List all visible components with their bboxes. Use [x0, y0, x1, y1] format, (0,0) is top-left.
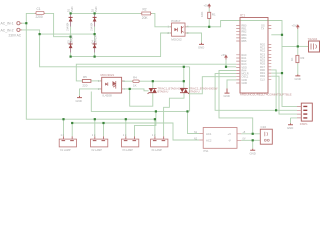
- wire: opto collector to pullup node and up-over to IC RB0: [185, 21, 282, 35]
- svg-text:GND: GND: [287, 126, 293, 130]
- junction T1 top: [152, 80, 154, 82]
- svg-text:AC2: AC2: [206, 139, 212, 143]
- ground (R3): [295, 75, 301, 82]
- wire: R3 to GND: [297, 63, 299, 75]
- transistor Q1 triac T1: [148, 86, 187, 93]
- wire: C1 right to corner down to col1 middle: [44, 13, 71, 36]
- svg-text:GND: GND: [224, 94, 230, 98]
- junction IC RB0 node: [281, 34, 283, 36]
- wire: AC_IN-1 to junction A: [22, 22, 27, 24]
- svg-text:R1: R1: [212, 13, 216, 17]
- wire: ACL feed vertical from AC line: [189, 67, 191, 112]
- junction bridge col1 top: [70, 12, 72, 14]
- junction -V node: [252, 139, 254, 141]
- resistor R2: [141, 8, 152, 20]
- wire: W2 drop to conn2 right pin: [103, 123, 105, 136]
- wire: MOC pin6 through R4: [122, 80, 133, 82]
- wire: IC VSS line down to +V tie: [219, 71, 253, 134]
- svg-text:CL3: CL3: [260, 78, 265, 81]
- svg-text:PC817: PC817: [171, 19, 181, 23]
- op-amp U2 optotriac MOC3021: [98, 73, 125, 97]
- junction V1 rail: [275, 109, 277, 111]
- ground (opto emitter): [198, 43, 204, 50]
- svg-text:1N4004: 1N4004: [71, 35, 74, 44]
- wire: junction A up to C1 rail: [26, 13, 36, 23]
- power +5V symbol (above R1): [204, 3, 212, 8]
- svg-text:AC_IN-1: AC_IN-1: [1, 22, 14, 26]
- svg-text:PS1: PS1: [204, 149, 209, 153]
- junction bridge col2 middle: [94, 33, 96, 35]
- svg-text:220: 220: [82, 84, 87, 88]
- diode D2: [90, 6, 97, 31]
- ground (MOC pin2): [76, 96, 83, 103]
- junction ACL rail: [186, 110, 188, 112]
- op-amp U1 optocoupler OK1: [168, 19, 190, 42]
- wire: W1 drop to conn1 left pin: [63, 119, 65, 136]
- connector pin AC_IN-1: [1, 22, 22, 26]
- wire: MOC pin2 to GND: [80, 89, 102, 96]
- power +5V symbol (right): [292, 24, 300, 30]
- junction rail conn3R: [155, 110, 157, 112]
- connector SV1 (right header): [297, 103, 312, 126]
- wire: main vertical down right side to header pin1: [282, 46, 297, 106]
- svg-text:BTA06-U: BTA06-U: [158, 90, 169, 94]
- wire: IC right pin to vertical V1: [271, 70, 276, 110]
- svg-text:X4 LAMP: X4 LAMP: [151, 149, 162, 152]
- svg-text:GND: GND: [242, 82, 248, 85]
- svg-text:BTA06-U: BTA06-U: [189, 90, 200, 94]
- wire: pullup resistor R1 down to node: [208, 19, 210, 27]
- wire: module -V to cap box: [241, 139, 260, 141]
- wire: VCC2 arrow down to tee: [297, 29, 299, 46]
- junction AC_IN-2 branch: [39, 33, 41, 35]
- svg-text:GND: GND: [76, 99, 82, 103]
- wire: tee right into resonator box: [298, 45, 309, 47]
- left pin stubs top group: [236, 26, 240, 42]
- wire: AC_IN-2 branch to bridge col2 middle: [40, 33, 95, 35]
- wire: bridge column 2: [94, 13, 96, 56]
- left pin stubs bottom group: [236, 55, 240, 83]
- wire: R5 to MOC pin1: [91, 80, 102, 82]
- svg-text:X2 LAMP: X2 LAMP: [91, 149, 102, 152]
- svg-text:R5: R5: [83, 75, 87, 79]
- svg-text:RC2: RC2: [260, 50, 266, 53]
- svg-text:AC1: AC1: [206, 132, 212, 136]
- wire: IC pin RB0 stub to node: [271, 34, 282, 36]
- svg-text:1N04: 1N04: [71, 6, 74, 12]
- svg-text:TX: TX: [261, 28, 265, 31]
- diode D1: [66, 6, 73, 31]
- svg-text:+5V: +5V: [292, 24, 297, 28]
- wire: IC GND pin to GND symbol: [227, 80, 236, 89]
- wire: ACL feed lower to module: [188, 111, 200, 133]
- svg-text:+5V: +5V: [221, 53, 226, 57]
- junction W1 conn3: [125, 118, 127, 120]
- junction MOC pin4 loop: [129, 88, 131, 90]
- wire: VCC arrow to R1: [208, 8, 210, 12]
- junction W2 conn2: [102, 122, 104, 124]
- svg-text:RB5: RB5: [242, 40, 247, 43]
- transistor Q2 triac T2: [180, 86, 218, 93]
- svg-text:2200: 2200: [36, 15, 43, 19]
- resistor R4 (gate series): [133, 75, 139, 87]
- wire: GND return rail to ACL vertical: [91, 92, 187, 112]
- wire: W1 drop to conn3 left pin: [125, 119, 127, 136]
- junction node A (AC line): [25, 22, 27, 24]
- svg-text:1 2: 1 2: [152, 134, 156, 137]
- wire: T1 MT1 loop to MOC pin4: [130, 89, 153, 106]
- microcontroller IC1 PIC16F628: [236, 13, 291, 96]
- ground (module -V): [250, 149, 256, 156]
- connector X3 (lamp 3): [122, 134, 139, 152]
- power supply module PS1: [194, 128, 246, 154]
- wire: long left AC line vertical down to bottom rail W1: [26, 23, 155, 119]
- wire: conn4 left pin drop: [154, 119, 156, 136]
- svg-text:10K: 10K: [200, 12, 204, 17]
- svg-text:DISP1: DISP1: [300, 122, 308, 126]
- ground (IC GND): [224, 89, 230, 99]
- svg-text:1N4004: 1N4004: [95, 35, 98, 44]
- svg-text:+V: +V: [228, 132, 232, 136]
- wire: IC right pin to main vertical: [271, 72, 282, 74]
- svg-text:1 2: 1 2: [92, 134, 96, 137]
- svg-text:X1 LAMP: X1 LAMP: [60, 149, 71, 152]
- junction bridge col1 bottom: [70, 56, 72, 58]
- junction bridge col2 top: [94, 12, 96, 14]
- wire: T2 MT1 route down-left: [164, 93, 184, 137]
- junction bridge col1 middle: [70, 36, 72, 38]
- wire: opto emitter to GND: [185, 33, 202, 43]
- junction bridge col2 bottom: [94, 56, 96, 58]
- diode D3: [66, 35, 73, 53]
- svg-text:1N4004: 1N4004: [67, 22, 70, 31]
- wire: IC right pin to header pin3: [271, 76, 297, 114]
- svg-text:D4: D4: [90, 40, 94, 44]
- wire: AC_IN-2 to corner: [22, 30, 40, 34]
- svg-text:1 2: 1 2: [123, 134, 127, 137]
- wire: T2 MT2 drop from AC line dot: [183, 67, 185, 89]
- svg-text:20K: 20K: [142, 16, 149, 20]
- wire: bridge bottom rail to opto pin2: [71, 33, 172, 57]
- svg-text:1K: 1K: [133, 83, 137, 87]
- wire: IC line to right header pin2 rail: [215, 74, 297, 111]
- wire: header pin4 to GND stub: [291, 118, 298, 124]
- junction +V node: [252, 133, 254, 135]
- wire: rail drop to conn3 right pin: [135, 111, 156, 136]
- wire: W2 neutral return rail to AC2: [72, 123, 199, 140]
- svg-text:C1: C1: [37, 7, 41, 11]
- junction W1 conn4: [154, 118, 156, 120]
- wire: VCC3 to IC VDD pin: [226, 60, 236, 67]
- svg-text:+5V: +5V: [204, 4, 209, 8]
- svg-text:R4: R4: [133, 75, 137, 79]
- resonator Q3 box: [308, 37, 320, 52]
- power +5V symbol (VCC3 near IC): [221, 53, 228, 60]
- ground (header pin4): [287, 123, 293, 129]
- svg-text:230V AC: 230V AC: [9, 34, 22, 38]
- svg-text:GND: GND: [198, 45, 204, 49]
- wire: W1 drop to conn2 left pin: [94, 119, 96, 136]
- capacitor C10 (filter, boxed): [260, 125, 272, 144]
- junction T2 AC line: [183, 66, 185, 68]
- connector X2 (lamp 2): [91, 134, 108, 152]
- wire: -V node down to GND: [252, 140, 254, 149]
- wire: T1 MT2 drop: [152, 81, 154, 88]
- svg-text:C10: C10: [261, 125, 267, 129]
- wire: R2 to corner down into opto pin1: [151, 13, 172, 26]
- svg-text:1 2: 1 2: [61, 134, 65, 137]
- svg-text:MOC62: MOC62: [171, 38, 182, 42]
- junction VCC3 node: [225, 66, 227, 68]
- connector X1 (lamp 1): [59, 134, 76, 152]
- capacitor C1: [35, 7, 45, 19]
- svg-text:GND: GND: [295, 77, 301, 81]
- right pin stubs: [268, 26, 271, 80]
- resistor R5 (MOC drive): [82, 75, 91, 87]
- junction W1 conn2: [94, 118, 96, 120]
- svg-text:R3: R3: [301, 56, 305, 60]
- svg-text:R2: R2: [143, 8, 147, 12]
- wire: IC drive line to R5 and MOC anode: [76, 64, 236, 81]
- wire: bridge top rail: [71, 12, 142, 14]
- junction T2 rail cross: [183, 80, 185, 82]
- svg-text:D3: D3: [66, 40, 70, 44]
- svg-text:D1: D1: [66, 8, 70, 12]
- svg-text:ARDUNO2URE2LT4COMMT3LPTBLE: ARDUNO2URE2LT4COMMT3LPTBLE: [240, 93, 292, 97]
- wire: IC gate line to T2: [189, 77, 236, 94]
- junction W2 conn1: [71, 122, 73, 124]
- svg-text:AC_IN-2: AC_IN-2: [1, 28, 14, 32]
- junction pullup node: [208, 26, 210, 28]
- wire: node down to R3/resonator tee: [282, 35, 298, 47]
- resistor R1 (pullup): [200, 12, 216, 19]
- wire: tee down through R3: [297, 46, 299, 55]
- junction R3 tee: [297, 45, 299, 47]
- svg-text:IC1: IC1: [240, 13, 245, 17]
- svg-text:IL4208: IL4208: [103, 94, 113, 98]
- svg-text:X3 LAMP: X3 LAMP: [122, 149, 133, 152]
- svg-text:-V: -V: [228, 139, 231, 143]
- svg-text:1N04: 1N04: [95, 6, 98, 12]
- svg-text:74LS04: 74LS04: [308, 37, 318, 41]
- junction W1 conn1: [62, 118, 64, 120]
- svg-text:0V: 0V: [243, 138, 246, 141]
- svg-text:D2: D2: [90, 8, 94, 12]
- wire: bridge column 1: [70, 13, 72, 56]
- wire: R4 to triac tops rail: [139, 80, 184, 82]
- svg-text:GND: GND: [250, 151, 256, 155]
- connector pin AC_IN-2: [1, 28, 22, 37]
- diode D4: [90, 35, 97, 53]
- wire: MOC pin4 to T1 gate: [122, 89, 149, 91]
- svg-text:MOC3021: MOC3021: [101, 73, 115, 77]
- svg-text:1N4004: 1N4004: [91, 22, 94, 31]
- connector X4 (lamp 4): [151, 134, 168, 152]
- junction main vertical pin: [281, 72, 283, 74]
- wire: AC_IN-2 branch down and long run right (to ACL corner): [40, 34, 190, 67]
- wire: module +V to cap box: [241, 133, 260, 135]
- resistor R3 (right vertical): [290, 55, 305, 62]
- svg-text:1K: 1K: [290, 57, 294, 61]
